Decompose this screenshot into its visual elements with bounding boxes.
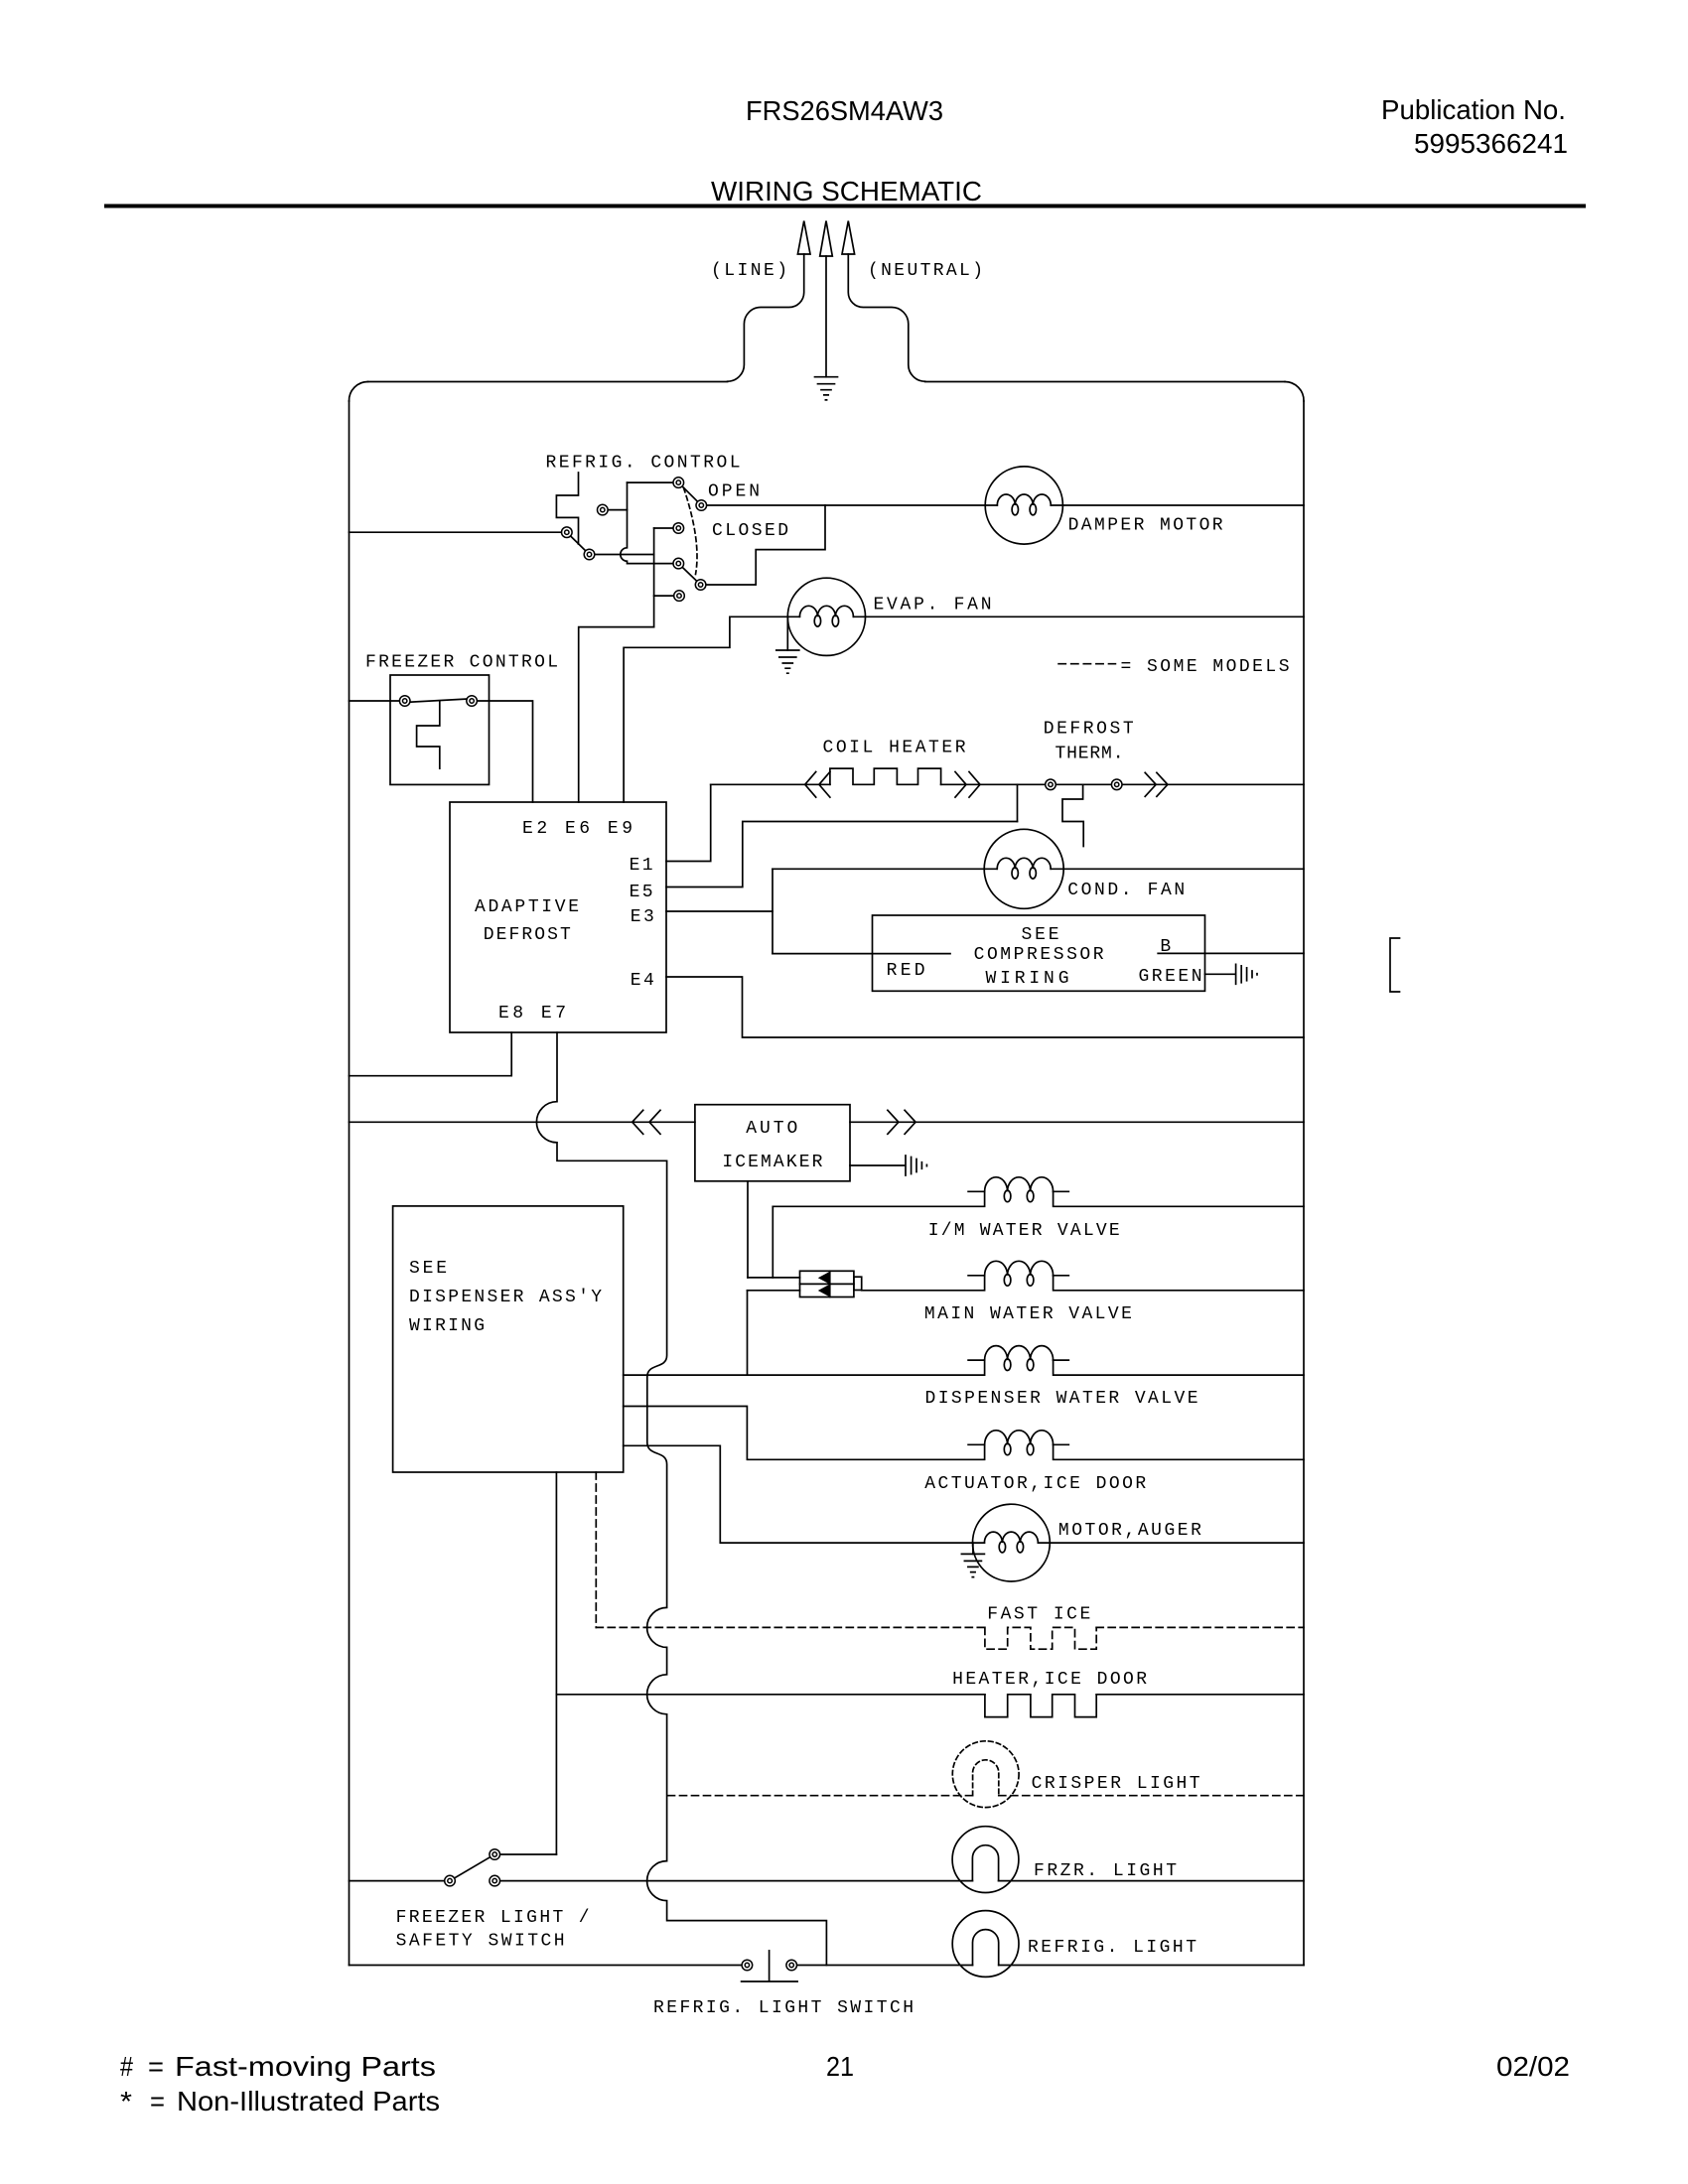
svg-text:(NEUTRAL): (NEUTRAL) — [868, 261, 983, 281]
compressor wiring box — [873, 915, 1205, 991]
svg-text:THERM.: THERM. — [1055, 745, 1124, 764]
connector chevrons left of coil heater — [805, 772, 830, 798]
wire into water valve bottom inlet — [748, 1290, 800, 1292]
wire main water valve row left — [862, 1276, 985, 1291]
svg-text:MOTOR,AUGER: MOTOR,AUGER — [1058, 1521, 1201, 1541]
wire left border to freezer control — [350, 700, 405, 702]
wire into water valve top inlet — [748, 1277, 800, 1279]
outer border right side — [1303, 401, 1305, 1966]
adaptive defrost board box — [450, 802, 666, 1032]
svg-text:DISPENSER ASS'Y: DISPENSER ASS'Y — [409, 1288, 602, 1307]
wire safety switch to frzr light — [494, 1880, 972, 1882]
terminal refrig control T5 — [584, 549, 595, 560]
water valve body — [800, 1271, 854, 1297]
water valve check triangle upper — [820, 1273, 830, 1284]
svg-text:HEATER,ICE DOOR: HEATER,ICE DOOR — [952, 1670, 1147, 1690]
svg-text:=: = — [150, 2086, 165, 2116]
safety switch blade — [450, 1854, 494, 1881]
water valve divider — [829, 1271, 831, 1297]
svg-text:B: B — [1160, 937, 1171, 957]
dispenser water valve coil — [985, 1346, 1054, 1361]
dashed crisper light row right — [999, 1795, 1304, 1797]
terminal refrig control T7 — [673, 558, 684, 569]
svg-text:Non-Illustrated Parts: Non-Illustrated Parts — [177, 2086, 440, 2116]
wire E3 to cond fan riser — [666, 910, 773, 912]
damper motor circle — [985, 467, 1062, 544]
wire refrig control top terminal — [628, 481, 679, 483]
actuator ice door coil — [985, 1431, 1054, 1445]
wire NEUTRAL prong to right border top — [848, 254, 924, 381]
terminal refrig light switch right — [786, 1960, 797, 1971]
wire cond fan to right border — [1051, 868, 1304, 870]
wire heater ice door row left — [556, 1694, 985, 1696]
connector bracket at right margin — [1390, 938, 1400, 992]
plug prong NEUTRAL — [842, 221, 855, 255]
wire safety switch NC to dispenser box drop — [494, 1853, 556, 1855]
outer border top edge left segment — [368, 381, 728, 383]
auger motor circle — [973, 1504, 1051, 1581]
svg-text:=: = — [148, 2051, 164, 2082]
terminal safety switch NC — [490, 1849, 500, 1860]
title rule — [104, 205, 1586, 208]
coil heater element — [830, 768, 941, 784]
water valve outlet tab — [854, 1277, 862, 1290]
wire E5 to heater line tap — [666, 822, 1018, 887]
evap fan coil — [799, 606, 853, 616]
auger motor coil — [984, 1532, 1038, 1543]
terminal defrost therm right — [1111, 779, 1122, 790]
ground symbol below plug — [815, 377, 838, 400]
wire GREEN from compressor to chassis ground — [1205, 973, 1235, 975]
evap fan ground wire — [786, 616, 788, 650]
svg-text:DISPENSER WATER VALVE: DISPENSER WATER VALVE — [925, 1389, 1198, 1409]
wire LINE prong to left border top — [728, 254, 804, 381]
cond fan coil — [997, 858, 1051, 869]
wire branch damper line down to T8 — [701, 505, 825, 585]
wire auger motor to right border — [1038, 1542, 1304, 1544]
svg-text:COND. FAN: COND. FAN — [1067, 881, 1185, 900]
dispenser assembly box — [393, 1206, 624, 1472]
wire E1 to coil heater line — [666, 784, 711, 861]
wire center prong to ground — [825, 256, 827, 377]
main water valve coil leads — [968, 1275, 1068, 1277]
svg-text:ACTUATOR,ICE DOOR: ACTUATOR,ICE DOOR — [924, 1474, 1146, 1494]
svg-text:Publication No.: Publication No. — [1381, 94, 1566, 125]
heater ice door element — [985, 1695, 1096, 1717]
wire dispenser water valve row left — [624, 1360, 985, 1375]
refrig light switch plate — [742, 1980, 798, 1982]
wire auto icemaker to right border — [850, 1121, 1304, 1123]
svg-text:SEE: SEE — [1022, 925, 1059, 945]
svg-text:RED: RED — [887, 961, 925, 981]
wire refrig control T5 to bus B — [590, 554, 654, 556]
frzr light bulb circle — [952, 1827, 1019, 1893]
svg-text:COIL HEATER: COIL HEATER — [823, 739, 966, 758]
terminal refrig control top — [673, 478, 684, 488]
refrig light switch plunger — [769, 1951, 771, 1980]
auger motor ground symbol — [961, 1554, 984, 1576]
water valve check triangle lower — [820, 1286, 830, 1297]
terminal defrost therm left — [1046, 779, 1056, 790]
connector chevrons right of coil heater — [955, 772, 980, 798]
actuator ice door coil leads — [968, 1443, 1068, 1445]
svg-text:SEE: SEE — [409, 1259, 447, 1279]
wire freezer control to E2 — [472, 701, 532, 802]
dashed fast ice row left — [596, 1626, 985, 1628]
wire refrig control lowest terminal T9 — [654, 595, 679, 597]
wire dispenser box to safety switch — [555, 1472, 557, 1854]
svg-text:#: # — [120, 2051, 133, 2082]
terminal refrig control T8 — [695, 580, 706, 591]
I/M water valve coil leads — [968, 1190, 1068, 1192]
wire B from compressor to right border — [1158, 952, 1304, 954]
refrig control vertical A with hop — [621, 482, 679, 563]
refrig control blade top to OPEN — [678, 482, 701, 505]
connector chevrons right of auto icemaker — [888, 1110, 915, 1134]
freezer control box — [390, 675, 490, 784]
wire E8 to left border — [350, 1032, 512, 1076]
auger motor ground wire — [972, 1543, 974, 1554]
svg-text:DEFROST: DEFROST — [1044, 720, 1134, 740]
wire water valve bottom inlet down to dispenser row — [747, 1291, 749, 1375]
frzr light filament — [972, 1845, 998, 1881]
wire E9 riser to evap fan — [624, 616, 799, 802]
svg-text:02/02: 02/02 — [1496, 2051, 1570, 2082]
wire riser to cond fan — [773, 868, 997, 870]
terminal refrig control T9 — [674, 591, 685, 602]
svg-text:EVAP. FAN: EVAP. FAN — [874, 596, 992, 615]
auto icemaker box — [695, 1105, 850, 1181]
wire OPEN terminal to damper motor and right border — [701, 504, 1304, 506]
wire auto icemaker feed from left border — [350, 1121, 695, 1123]
I/M water valve coil — [985, 1177, 1054, 1192]
connector chevrons right of defrost therm — [1145, 772, 1168, 796]
outer border left side — [349, 401, 351, 1966]
bottom border refrig light row right — [999, 1965, 1304, 1967]
wire main water valve row right — [1054, 1276, 1304, 1291]
svg-text:ICEMAKER: ICEMAKER — [722, 1153, 822, 1172]
wire I/M water valve row right — [1054, 1191, 1304, 1206]
wire I/M row left end down to water valve — [772, 1206, 774, 1278]
svg-text:5995366241: 5995366241 — [1414, 128, 1568, 159]
svg-text:E8 E7: E8 E7 — [498, 1004, 566, 1024]
terminal freezer control left — [399, 696, 410, 707]
terminal refrig control CLOSED T6 — [673, 523, 684, 534]
svg-text:GREEN: GREEN — [1139, 967, 1202, 987]
connector chevrons left of auto icemaker — [633, 1110, 660, 1134]
bottom border refrig light row left — [350, 1965, 748, 1967]
wire E6 riser to refrig control bus B — [579, 627, 654, 802]
evap fan ground symbol — [776, 650, 799, 673]
wire frzr light row left border to safety switch — [350, 1880, 451, 1882]
defrost thermostat sensing zigzag — [1062, 784, 1083, 846]
svg-text:21: 21 — [826, 2051, 854, 2082]
damper motor coil — [997, 494, 1051, 505]
dashed fast ice row right — [1096, 1626, 1304, 1628]
svg-text:I/M WATER VALVE: I/M WATER VALVE — [928, 1221, 1120, 1241]
wire auto icemaker bottom pin to water valve — [747, 1181, 749, 1278]
crisper light filament dashed — [973, 1760, 999, 1796]
coil heater line right of element to border — [941, 783, 1304, 785]
crisper light bulb circle dashed — [952, 1741, 1019, 1808]
refrig light filament — [973, 1930, 999, 1966]
wire actuator ice door row right — [1054, 1444, 1304, 1459]
svg-text:*: * — [120, 2086, 132, 2116]
dashed wire dispenser box to fast ice row — [595, 1472, 597, 1627]
dashed crisper light row left — [668, 1795, 973, 1797]
terminal refrig control T3 — [598, 504, 609, 515]
refrig control vertical B — [653, 528, 655, 627]
svg-text:REFRIG. CONTROL: REFRIG. CONTROL — [546, 454, 741, 474]
svg-text:FRS26SM4AW3: FRS26SM4AW3 — [746, 95, 943, 126]
refrig control T3 stub — [603, 509, 628, 511]
outer border top edge right segment — [925, 381, 1285, 383]
chassis ground comb at icemaker — [906, 1156, 926, 1175]
wire dispenser box to actuator row — [624, 1407, 985, 1460]
wire refrig control CLOSED upper terminal — [654, 527, 679, 529]
outer cabinet border top-left corner — [349, 381, 367, 401]
wire RED to compressor — [773, 953, 950, 955]
terminal refrig control common T4 — [562, 527, 573, 538]
cond fan riser vertical — [772, 869, 774, 953]
terminal refrig light switch left — [742, 1960, 753, 1971]
wire I/M water valve row left — [773, 1191, 984, 1206]
wire auto icemaker ground — [850, 1164, 905, 1166]
cond fan motor circle — [984, 829, 1063, 908]
plug prong LINE — [797, 221, 810, 255]
refrig control label stub wire — [556, 473, 578, 544]
plug prong center ground — [820, 221, 833, 257]
dispenser water valve coil leads — [968, 1359, 1068, 1361]
wire dispenser box to auger motor row — [624, 1445, 985, 1543]
terminal refrig control OPEN — [696, 500, 707, 511]
svg-text:DEFROST: DEFROST — [484, 925, 571, 945]
svg-text:FRZR. LIGHT: FRZR. LIGHT — [1034, 1861, 1177, 1881]
svg-text:Fast-moving Parts: Fast-moving Parts — [175, 2051, 436, 2082]
coil heater line left of element — [711, 783, 830, 785]
main water valve coil — [985, 1261, 1054, 1276]
wire frzr light to right border — [999, 1880, 1304, 1882]
refrig control dashed gang arc — [684, 488, 698, 575]
dashed fast ice heater element — [985, 1627, 1096, 1649]
refrig light bulb circle — [952, 1911, 1019, 1978]
freezer control sensing zigzag — [417, 701, 440, 768]
water valve midline — [800, 1283, 854, 1285]
legend dashed sample — [1058, 663, 1115, 665]
evap fan motor circle — [787, 578, 865, 655]
freezer control blade — [405, 699, 472, 703]
outer cabinet border top-right corner — [1285, 382, 1304, 402]
terminal safety switch common — [445, 1875, 456, 1886]
wire E4 to right border — [666, 977, 1304, 1037]
wire dispenser water valve row right — [1054, 1360, 1304, 1375]
wire evap fan to right border — [853, 615, 1304, 617]
wire heater ice door row right — [1096, 1694, 1304, 1696]
wire left border to refrig control common terminal — [350, 531, 567, 533]
tap from heater line down to E5 wire — [1017, 784, 1019, 821]
chassis ground comb at GREEN — [1236, 964, 1257, 984]
wire E7 long bus with hops and jogs — [536, 1032, 826, 1966]
svg-text:FREEZER LIGHT /: FREEZER LIGHT / — [396, 1908, 590, 1928]
terminal safety switch NO — [490, 1875, 500, 1886]
bottom border refrig light row mid — [791, 1965, 972, 1967]
refrig control blade T7 to T8 — [678, 564, 700, 585]
svg-text:WIRING SCHEMATIC: WIRING SCHEMATIC — [711, 176, 982, 206]
terminal freezer control right — [467, 696, 478, 707]
svg-text:FREEZER CONTROL: FREEZER CONTROL — [365, 653, 558, 673]
refrig control blade common — [567, 532, 590, 554]
